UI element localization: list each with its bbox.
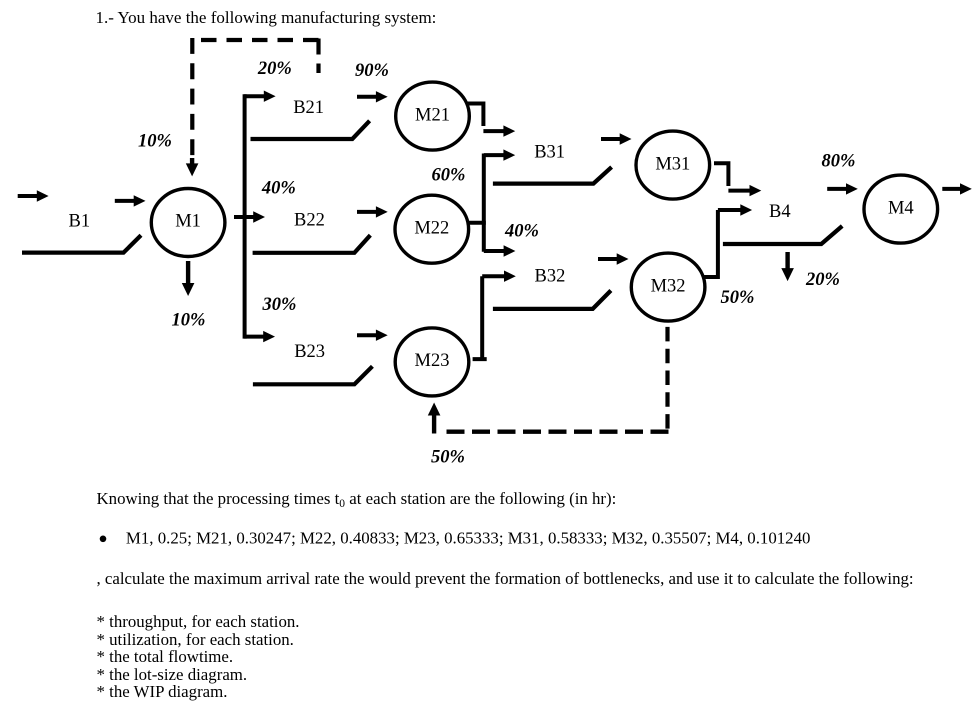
trunk elbow arrow to B31 (60%)	[484, 149, 515, 160]
buffer queue symbol B32	[493, 291, 611, 309]
splitter trunk wire after M22	[482, 154, 486, 252]
svg-text:* throughput, for each station: * throughput, for each station.	[97, 612, 300, 631]
wire elbow M21 output down to B31	[467, 104, 483, 127]
svg-text:* the total flowtime.: * the total flowtime.	[97, 647, 234, 666]
machine M32	[631, 253, 705, 321]
svg-text:M31: M31	[655, 154, 690, 174]
svg-text:B23: B23	[294, 342, 325, 362]
trunk elbow arrow to B21	[244, 91, 276, 102]
svg-text:M32: M32	[651, 276, 686, 296]
svg-text:80%: 80%	[822, 152, 856, 172]
buffer queue symbol B1	[22, 235, 141, 252]
arrow M31 output into B4	[728, 185, 761, 196]
arrow B22 to M22	[357, 206, 388, 217]
svg-text:90%: 90%	[355, 61, 389, 81]
svg-text:B32: B32	[535, 267, 566, 287]
bullet glyph	[100, 536, 107, 543]
svg-text:M21: M21	[415, 105, 450, 125]
machine M23	[395, 328, 469, 396]
wire M22 to trunk	[467, 221, 486, 225]
svg-text:B1: B1	[69, 211, 91, 231]
arrow B32 to M32	[598, 253, 629, 264]
buffer queue symbol B31	[493, 167, 612, 184]
svg-text:M1: M1	[175, 212, 201, 232]
svg-text:1.- You have the following man: 1.- You have the following manufacturing…	[96, 8, 437, 27]
machine M4	[864, 175, 938, 243]
svg-text:50%: 50%	[431, 448, 465, 468]
buffer queue symbol B21	[251, 121, 370, 139]
buffer queue symbol B22	[253, 235, 371, 253]
arrowhead of rework wire up into M23	[428, 403, 441, 434]
svg-text:40%: 40%	[261, 179, 296, 199]
input arrow to buffer B1	[18, 190, 49, 201]
machine M21	[396, 82, 470, 150]
svg-text:50%: 50%	[721, 288, 755, 308]
svg-text:B22: B22	[294, 211, 325, 231]
machine M1	[151, 189, 225, 257]
trunk elbow arrow to B23	[244, 331, 275, 342]
svg-text:10%: 10%	[138, 132, 172, 152]
arrow B4 to M4	[827, 183, 858, 194]
arrow M23 output into B32	[482, 271, 516, 282]
svg-text:Knowing that the processing ti: Knowing that the processing times t0 at …	[97, 489, 617, 510]
wire M23 output up to B32	[473, 276, 487, 359]
buffer queue symbol B4	[723, 226, 842, 244]
svg-text:20%: 20%	[257, 59, 292, 79]
arrow B1 to M1	[115, 195, 146, 206]
svg-text:, calculate the maximum arriva: , calculate the maximum arrival rate the…	[97, 569, 914, 588]
dashed rework wire from M32 down and left to M23	[665, 327, 669, 432]
splitter trunk wire after M1	[243, 94, 247, 338]
svg-text:30%: 30%	[261, 295, 296, 315]
arrow M32 output into B4	[718, 204, 752, 215]
machine M22	[395, 195, 469, 263]
svg-text:10%: 10%	[171, 311, 205, 331]
svg-text:20%: 20%	[805, 270, 840, 290]
svg-text:40%: 40%	[504, 222, 539, 242]
arrow B21 to M21	[357, 91, 388, 102]
wire M32 output up to B4	[704, 210, 718, 277]
output arrow from M4	[942, 183, 972, 194]
svg-text:* the WIP diagram.: * the WIP diagram.	[97, 682, 228, 701]
arrow B23 to M23	[357, 330, 388, 341]
arrowhead of dashed rework wire into M1	[186, 158, 199, 176]
trunk elbow arrow to B32 (40%)	[484, 245, 516, 256]
svg-text:M1, 0.25; M21, 0.30247; M22, 0: M1, 0.25; M21, 0.30247; M22, 0.40833; M2…	[126, 529, 811, 548]
svg-text:M22: M22	[414, 218, 449, 238]
scrap arrow down from B4 (20%)	[781, 252, 794, 281]
arrow M21 output into B31	[483, 125, 515, 136]
svg-text:M4: M4	[888, 198, 914, 218]
dashed rework wire from B21 area back to M1	[316, 39, 320, 74]
svg-text:B21: B21	[293, 98, 324, 118]
arrow M1 output to B22	[234, 211, 265, 222]
svg-text:* the lot-size diagram.: * the lot-size diagram.	[97, 665, 248, 684]
buffer queue symbol B23	[253, 366, 373, 384]
svg-text:B31: B31	[534, 143, 565, 163]
scrap arrow down from M1 (10%)	[182, 261, 195, 296]
wire elbow M31 output down to B4	[714, 163, 728, 186]
machine M31	[636, 131, 710, 199]
svg-text:M23: M23	[415, 351, 450, 371]
svg-text:B4: B4	[769, 202, 791, 222]
arrow B31 to M31	[601, 133, 632, 144]
svg-text:60%: 60%	[431, 166, 465, 186]
